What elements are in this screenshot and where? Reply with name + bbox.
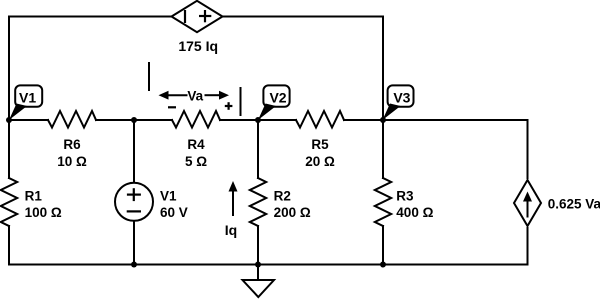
- svg-text:10 Ω: 10 Ω: [57, 154, 87, 169]
- svg-text:Iq: Iq: [225, 222, 237, 238]
- svg-text:V1: V1: [160, 188, 177, 203]
- svg-text:R4: R4: [187, 137, 205, 152]
- svg-text:5 Ω: 5 Ω: [185, 154, 207, 169]
- svg-text:R5: R5: [311, 137, 329, 152]
- svg-text:R1: R1: [25, 188, 43, 203]
- svg-text:0.625 Va: 0.625 Va: [548, 197, 600, 212]
- svg-text:V1: V1: [19, 89, 36, 105]
- svg-text:175 Iq: 175 Iq: [178, 38, 218, 54]
- svg-text:R6: R6: [63, 137, 81, 152]
- svg-text:Va: Va: [187, 88, 203, 103]
- svg-text:100 Ω: 100 Ω: [25, 205, 62, 220]
- svg-text:200 Ω: 200 Ω: [274, 205, 311, 220]
- svg-text:400 Ω: 400 Ω: [396, 205, 433, 220]
- svg-text:60 V: 60 V: [160, 205, 188, 220]
- svg-text:R2: R2: [274, 188, 291, 203]
- svg-text:20 Ω: 20 Ω: [305, 154, 335, 169]
- svg-text:R3: R3: [396, 188, 414, 203]
- svg-text:V3: V3: [393, 89, 410, 105]
- svg-text:V2: V2: [269, 89, 286, 105]
